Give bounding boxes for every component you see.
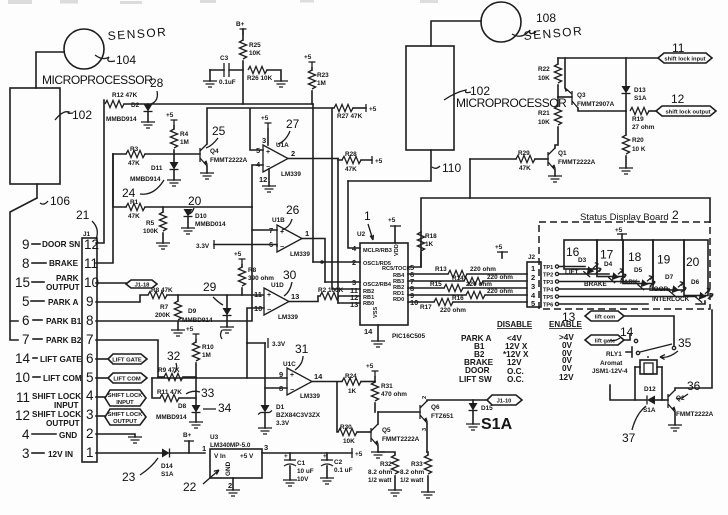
op-amp U1D LM339 (264, 288, 289, 315)
wire RB2 from bus (332, 108, 360, 289)
leader 24 to D11 (140, 180, 164, 194)
svg-text:D3: D3 (578, 257, 587, 264)
svg-text:+5: +5 (186, 326, 194, 333)
resistor R4 1M (173, 126, 175, 129)
svg-text:FMMT2222A: FMMT2222A (558, 159, 596, 166)
svg-text:14: 14 (620, 325, 634, 339)
resistor R33 8.2 ohm 1/2 watt (427, 452, 428, 455)
svg-text:29: 29 (203, 280, 217, 294)
transistor Q4 FMMT2222A (199, 148, 201, 162)
svg-text:35: 35 (678, 336, 692, 350)
svg-text:J1-10: J1-10 (497, 399, 512, 405)
leader 21 (92, 221, 97, 239)
svg-text:17: 17 (600, 248, 614, 262)
svg-text:5: 5 (22, 294, 30, 309)
svg-text:D2: D2 (131, 102, 140, 109)
leader 37 to D12 (632, 406, 646, 430)
svg-text:2: 2 (291, 149, 295, 158)
relay coil RLY1 (647, 356, 649, 360)
svg-text:14: 14 (314, 372, 323, 381)
resistor R8 390 ohm (241, 265, 243, 267)
svg-text:14: 14 (15, 351, 31, 366)
svg-text:Q3: Q3 (577, 92, 586, 99)
svg-text:D6: D6 (691, 279, 700, 286)
svg-text:8: 8 (22, 256, 30, 271)
wire Q2 emitter to ground (674, 412, 676, 425)
svg-text:MMBD914: MMBD914 (130, 176, 161, 183)
svg-text:BRAKE: BRAKE (49, 259, 79, 268)
svg-text:3: 3 (86, 407, 94, 422)
svg-text:12V: 12V (559, 373, 574, 382)
wire 12V in pin1 (96, 452, 162, 454)
resistor R23 1M (311, 68, 313, 70)
svg-text:+5: +5 (369, 106, 377, 113)
svg-text:S1A: S1A (161, 471, 174, 478)
resistor R19 27 ohm (630, 107, 649, 114)
svg-text:LM339: LM339 (300, 393, 320, 400)
svg-text:R12 47K: R12 47K (112, 92, 138, 99)
wire Q6 base from Q5 collector (378, 411, 420, 413)
svg-text:LM339: LM339 (290, 251, 310, 258)
svg-text:R4: R4 (180, 131, 189, 138)
resistor R14 220 ohm (408, 280, 464, 282)
svg-text:O.C.: O.C. (507, 375, 524, 384)
svg-text:R15: R15 (430, 281, 442, 288)
svg-text:5: 5 (256, 146, 260, 155)
svg-text:D4: D4 (604, 261, 613, 268)
wire OSC2 (325, 281, 360, 283)
svg-text:28: 28 (150, 76, 164, 90)
svg-text:D15: D15 (481, 405, 493, 412)
svg-text:34: 34 (218, 401, 232, 415)
leader 102 right (444, 90, 471, 100)
svg-text:12: 12 (15, 408, 30, 423)
svg-text:3.3V: 3.3V (196, 243, 210, 250)
svg-text:LIFT GATE: LIFT GATE (112, 358, 142, 364)
svg-text:108: 108 (536, 11, 556, 25)
wire U1B output to OSC2 (302, 239, 325, 283)
wire relay feed stub (610, 385, 646, 400)
svg-text:RLY1: RLY1 (606, 351, 622, 358)
svg-text:lift com: lift com (595, 315, 616, 321)
svg-text:8.2 ohm: 8.2 ohm (400, 469, 424, 476)
LED cell 20 (684, 240, 708, 296)
svg-text:R26 10K: R26 10K (247, 75, 273, 82)
svg-text:shift lock output: shift lock output (665, 110, 710, 116)
svg-text:26: 26 (286, 203, 300, 217)
svg-text:3: 3 (264, 443, 268, 452)
svg-text:R22: R22 (538, 66, 550, 73)
svg-text:10K: 10K (343, 438, 355, 445)
svg-text:D11: D11 (151, 165, 163, 172)
svg-text:PIC16C505: PIC16C505 (392, 333, 425, 340)
Q5 emitter ground (377, 446, 379, 452)
leader 25 to Q4 (206, 138, 218, 148)
svg-text:R18: R18 (425, 233, 437, 240)
svg-text:3: 3 (262, 136, 266, 145)
svg-text:11: 11 (16, 390, 30, 405)
wire sensor108 to microprocessor right (431, 21, 481, 46)
wire U1D -input to 3.3V rail (247, 308, 264, 343)
svg-text:R21: R21 (538, 110, 550, 117)
svg-text:FTZ651: FTZ651 (431, 413, 454, 420)
LED cell 18 (623, 240, 653, 284)
svg-text:MMBD914: MMBD914 (106, 116, 137, 123)
hexagon tag J1-10 (487, 395, 522, 405)
svg-text:+: + (284, 453, 288, 460)
svg-text:30: 30 (283, 268, 297, 282)
svg-text:10K: 10K (249, 50, 261, 57)
svg-text:FMMT2222A: FMMT2222A (210, 157, 248, 164)
svg-text:+5: +5 (234, 251, 242, 258)
svg-text:102: 102 (72, 108, 92, 122)
wire 3.3V rail down to U1C (247, 343, 265, 405)
leader 26 to U1B (282, 219, 292, 230)
svg-text:+5: +5 (495, 244, 503, 251)
diode D1 BZX84C3V3ZX zener (261, 405, 270, 413)
svg-text:3.3V: 3.3V (276, 420, 290, 427)
svg-text:D9: D9 (188, 308, 197, 315)
wire OSC1 (313, 261, 360, 263)
svg-text:8.2 ohm: 8.2 ohm (368, 469, 392, 476)
wire U3 output +5 rail (262, 452, 352, 454)
resistor R32 8.2 ohm 1/2 watt (378, 452, 395, 455)
wire park B2 pin7 to riser (96, 340, 158, 377)
svg-text:U1C: U1C (283, 361, 296, 368)
status board dashed border (539, 222, 710, 309)
svg-text:47K: 47K (519, 165, 531, 172)
svg-text:Q4: Q4 (210, 148, 219, 155)
svg-text:lift gate: lift gate (595, 339, 616, 345)
svg-text:1/2 watt: 1/2 watt (400, 477, 424, 484)
svg-text:D14: D14 (161, 463, 173, 470)
svg-text:OSC2/RB4: OSC2/RB4 (363, 282, 392, 288)
svg-text:Aromat: Aromat (600, 360, 623, 367)
svg-text:2: 2 (672, 208, 679, 222)
wire lift gate to contact (624, 334, 630, 340)
svg-text:R10: R10 (202, 344, 214, 351)
LED cell 16 (564, 240, 597, 269)
wire gnd pin2 (96, 434, 135, 437)
wire shift lock input line (558, 57, 658, 59)
svg-text:9: 9 (22, 237, 30, 252)
svg-text:47K: 47K (345, 166, 357, 173)
svg-text:13: 13 (350, 300, 358, 309)
relay coil loop wires (635, 367, 662, 400)
svg-text:C2: C2 (334, 459, 343, 466)
svg-text:S1A: S1A (643, 407, 656, 414)
svg-text:PARK A: PARK A (48, 298, 79, 307)
svg-text:10: 10 (15, 370, 30, 385)
svg-text:+: + (266, 149, 270, 156)
wire TP1 to D3 (559, 266, 585, 268)
svg-text:RD0: RD0 (393, 297, 404, 303)
microprocessor 102 box right (406, 46, 454, 150)
svg-text:2: 2 (86, 426, 94, 441)
diode D10 MMBD014 (184, 209, 193, 217)
svg-text:24: 24 (122, 186, 136, 200)
svg-text:D5: D5 (634, 267, 643, 274)
wire RC5 row to J2 (408, 273, 448, 275)
svg-text:R5: R5 (146, 220, 155, 227)
svg-text:FMMT2907A: FMMT2907A (577, 101, 615, 108)
relay switch arm (640, 344, 672, 352)
svg-text:220 ohm: 220 ohm (487, 274, 513, 281)
svg-text:3: 3 (22, 446, 30, 461)
svg-text:104: 104 (116, 53, 136, 67)
svg-text:10 uF: 10 uF (297, 468, 314, 475)
svg-text:RC5/TOCK: RC5/TOCK (382, 266, 411, 272)
svg-text:FMMT2222A: FMMT2222A (382, 436, 420, 443)
LED cell 17 (597, 240, 623, 277)
hexagon tag shift lock output (656, 106, 716, 116)
wire TP4 to D7 (559, 288, 669, 290)
svg-text:D8: D8 (178, 403, 187, 410)
svg-text:25: 25 (212, 124, 226, 138)
svg-text:LIFT COM: LIFT COM (43, 374, 82, 383)
leader 27 to U1A (278, 131, 290, 144)
hexagon tag SHIFT LOCK INPUT (96, 396, 105, 398)
svg-text:S1A: S1A (634, 95, 647, 102)
svg-text:TP5: TP5 (543, 295, 553, 301)
svg-text:MCLR/RB3: MCLR/RB3 (363, 248, 392, 254)
wire park-b1 pin8 to x252 riser (96, 207, 252, 321)
svg-text:D7: D7 (665, 274, 674, 281)
svg-text:Q5: Q5 (382, 427, 391, 434)
svg-text:shift lock input: shift lock input (664, 57, 705, 63)
hexagon tag J1-18 (96, 282, 126, 284)
wire U1B +input from R1 node (252, 229, 277, 231)
svg-text:47K: 47K (128, 213, 140, 220)
svg-text:2: 2 (422, 396, 428, 399)
svg-text:6: 6 (22, 313, 30, 328)
svg-text:PARK: PARK (620, 279, 638, 286)
svg-text:19: 19 (657, 253, 671, 267)
svg-text:U1D: U1D (271, 282, 284, 289)
svg-text:11: 11 (254, 290, 262, 299)
svg-text:1: 1 (364, 209, 371, 223)
leader 102 (55, 112, 73, 120)
wire TP6 interlock return (559, 301, 705, 304)
svg-text:2: 2 (228, 481, 232, 490)
svg-text:GND: GND (59, 431, 77, 440)
svg-text:+5: +5 (304, 54, 312, 61)
svg-text:33: 33 (201, 386, 215, 400)
svg-text:220 ohm: 220 ohm (487, 288, 513, 295)
svg-text:R23: R23 (317, 72, 329, 79)
svg-text:5: 5 (531, 299, 535, 308)
svg-text:11: 11 (84, 256, 98, 271)
hexagon tag shift lock input (658, 53, 712, 63)
scan marks top edge (8, 0, 438, 4)
svg-text:0V: 0V (562, 364, 573, 373)
svg-text:1: 1 (305, 229, 309, 238)
svg-text:220 ohm: 220 ohm (466, 281, 492, 288)
svg-text:B+: B+ (183, 432, 192, 439)
svg-text:R17: R17 (420, 304, 432, 311)
svg-text:9: 9 (86, 294, 94, 309)
svg-text:LM339: LM339 (278, 314, 298, 321)
leader squiggle 108 (512, 30, 536, 36)
op-amp U1C LM339 (287, 368, 312, 395)
svg-text:TP1: TP1 (543, 265, 553, 271)
Q1 emitter ground (554, 170, 556, 176)
wire TP5 to D6 (559, 296, 696, 298)
svg-text:INPUT: INPUT (54, 401, 79, 410)
svg-text:MICROPROCESSOR: MICROPROCESSOR (42, 73, 153, 87)
svg-text:12: 12 (259, 175, 267, 184)
svg-text:31: 31 (295, 342, 309, 356)
svg-text:OUTPUT: OUTPUT (113, 419, 137, 425)
svg-text:R32: R32 (380, 461, 392, 468)
svg-text:INPUT: INPUT (116, 400, 134, 406)
svg-text:SHIFT LOCK: SHIFT LOCK (32, 410, 81, 419)
wire Q2 collector up to interlock LED (675, 310, 712, 390)
resistor R18 1K (408, 232, 421, 267)
svg-text:RB0: RB0 (363, 301, 374, 307)
svg-text:1: 1 (86, 445, 94, 460)
svg-text:D13: D13 (634, 87, 646, 94)
leader 35 to relay (660, 351, 678, 359)
resistor R16 220 ohm (408, 294, 466, 296)
leader squiggle 104 (95, 55, 115, 62)
wire TP2 to D4 (559, 273, 609, 275)
svg-text:3.3V: 3.3V (272, 341, 286, 348)
resistor R27 47K (334, 104, 353, 111)
leader 33 to R11 (186, 391, 200, 394)
svg-text:J2: J2 (528, 254, 536, 261)
wire Q4 collector to U1A + input (207, 108, 334, 150)
svg-text:37: 37 (622, 431, 636, 445)
leader 32 to R9 (174, 363, 177, 373)
resistor R29 47K (470, 158, 516, 160)
svg-text:SHIFT LOCK: SHIFT LOCK (108, 393, 144, 399)
svg-text:+: + (267, 292, 271, 299)
svg-text:BZX84C3V3ZX: BZX84C3V3ZX (276, 412, 321, 419)
svg-text:1/2 watt: 1/2 watt (368, 477, 392, 484)
svg-text:SENSOR: SENSOR (523, 24, 584, 43)
resistor R26 10K (248, 66, 267, 73)
svg-text:U2: U2 (357, 231, 366, 238)
wire U1D output to R2 (289, 296, 320, 302)
svg-text:S1A: S1A (481, 416, 513, 433)
svg-text:15: 15 (15, 275, 30, 290)
transistor Q2 FMMT2222A (667, 394, 669, 408)
resistor R20 10K (625, 111, 627, 135)
svg-text:MMBD914: MMBD914 (156, 414, 187, 421)
svg-text:220 ohm: 220 ohm (470, 266, 496, 273)
svg-text:R25: R25 (249, 42, 261, 49)
transistor Q6 FTZ651 (419, 405, 421, 419)
transistor Q1 FMMT2222A (547, 152, 549, 166)
svg-text:+5: +5 (366, 363, 374, 370)
svg-text:B+: B+ (236, 21, 245, 28)
svg-text:MMBD014: MMBD014 (195, 221, 226, 228)
svg-text:470 ohm: 470 ohm (381, 391, 407, 398)
wire bus y100 to B+ node (148, 103, 313, 105)
svg-text:LIFT SW: LIFT SW (459, 375, 492, 384)
svg-text:22: 22 (183, 480, 197, 494)
svg-text:1M: 1M (202, 352, 211, 359)
svg-text:SHIFT LOCK: SHIFT LOCK (108, 412, 144, 418)
diode D13 S1A (625, 58, 627, 86)
svg-text:MICROPROCESSOR: MICROPROCESSOR (456, 96, 567, 110)
wire Q1 collector to R21 (555, 127, 558, 148)
svg-text:R14: R14 (452, 275, 464, 282)
wire U1A output to R28 and bus (288, 158, 338, 160)
leader squiggle 110 (432, 166, 440, 168)
sensor 104 circle (64, 29, 104, 69)
svg-text:20: 20 (188, 194, 202, 208)
svg-text:FMMT2222A: FMMT2222A (676, 411, 714, 418)
wire U1A -input (252, 165, 263, 207)
leader 36 to Q2 (676, 394, 688, 399)
svg-text:10K: 10K (538, 75, 550, 82)
svg-text:C3: C3 (220, 55, 229, 62)
svg-text:R20: R20 (632, 137, 644, 144)
svg-text:6: 6 (86, 351, 94, 366)
svg-text:R31: R31 (381, 383, 393, 390)
transistor Q5 FMMT2222A (370, 428, 372, 442)
resistor R25 10K (242, 29, 244, 40)
svg-text:GND: GND (225, 461, 232, 476)
svg-text:100K: 100K (143, 228, 159, 235)
svg-text:27 ohm: 27 ohm (632, 124, 655, 131)
svg-text:R11 47K: R11 47K (157, 389, 182, 396)
svg-text:4: 4 (86, 388, 94, 403)
svg-text:R13: R13 (435, 266, 447, 273)
svg-text:+: + (290, 372, 294, 379)
diode D15 (469, 403, 478, 411)
svg-text:C1: C1 (297, 460, 306, 467)
svg-text:+5: +5 (615, 227, 623, 234)
svg-text:12: 12 (84, 237, 99, 252)
svg-text:0.1uF: 0.1uF (219, 79, 236, 86)
svg-text:110: 110 (442, 161, 461, 175)
wire brake pin11 up to R3 (96, 154, 113, 263)
leader 22 to U3 (203, 470, 219, 484)
wire sensor104 to microprocessor (36, 52, 64, 88)
hexagon tag LIFT GATE (96, 358, 108, 360)
hexagon tag SHIFT LOCK OUTPUT (96, 415, 105, 417)
op-amp U1A LM339 (263, 145, 288, 172)
svg-text:Q1: Q1 (558, 150, 567, 157)
status display board top wire (470, 198, 710, 222)
wire bus x338 down to RB0 (337, 160, 339, 303)
wire bus x313 down to OSC1 (312, 104, 314, 262)
leader 31 to U1C (295, 356, 303, 370)
resistor R17 220 ohm (408, 301, 434, 303)
svg-text:12V: 12V (507, 358, 522, 367)
svg-text:R27 47K: R27 47K (337, 113, 363, 120)
leader 34 to D8 (203, 408, 216, 410)
svg-text:200K: 200K (155, 312, 171, 319)
svg-text:DISABLE: DISABLE (497, 320, 533, 329)
wire Q6 emitter down to R33 (426, 423, 428, 452)
op-amp U1B LM339 (277, 225, 302, 252)
leader 29 to D9 (213, 297, 223, 305)
svg-text:+5: +5 (388, 217, 396, 224)
svg-text:OUTPUT: OUTPUT (46, 283, 80, 292)
svg-text:12: 12 (671, 92, 685, 106)
svg-text:10K: 10K (538, 119, 550, 126)
svg-text:7: 7 (86, 332, 94, 347)
svg-text:D1: D1 (276, 404, 285, 411)
svg-text:Q6: Q6 (431, 404, 440, 411)
wire Q3 base to R22/R21 node (558, 96, 572, 98)
svg-text:DOOR: DOOR (465, 366, 490, 375)
leader 28 to D2 (151, 91, 157, 104)
